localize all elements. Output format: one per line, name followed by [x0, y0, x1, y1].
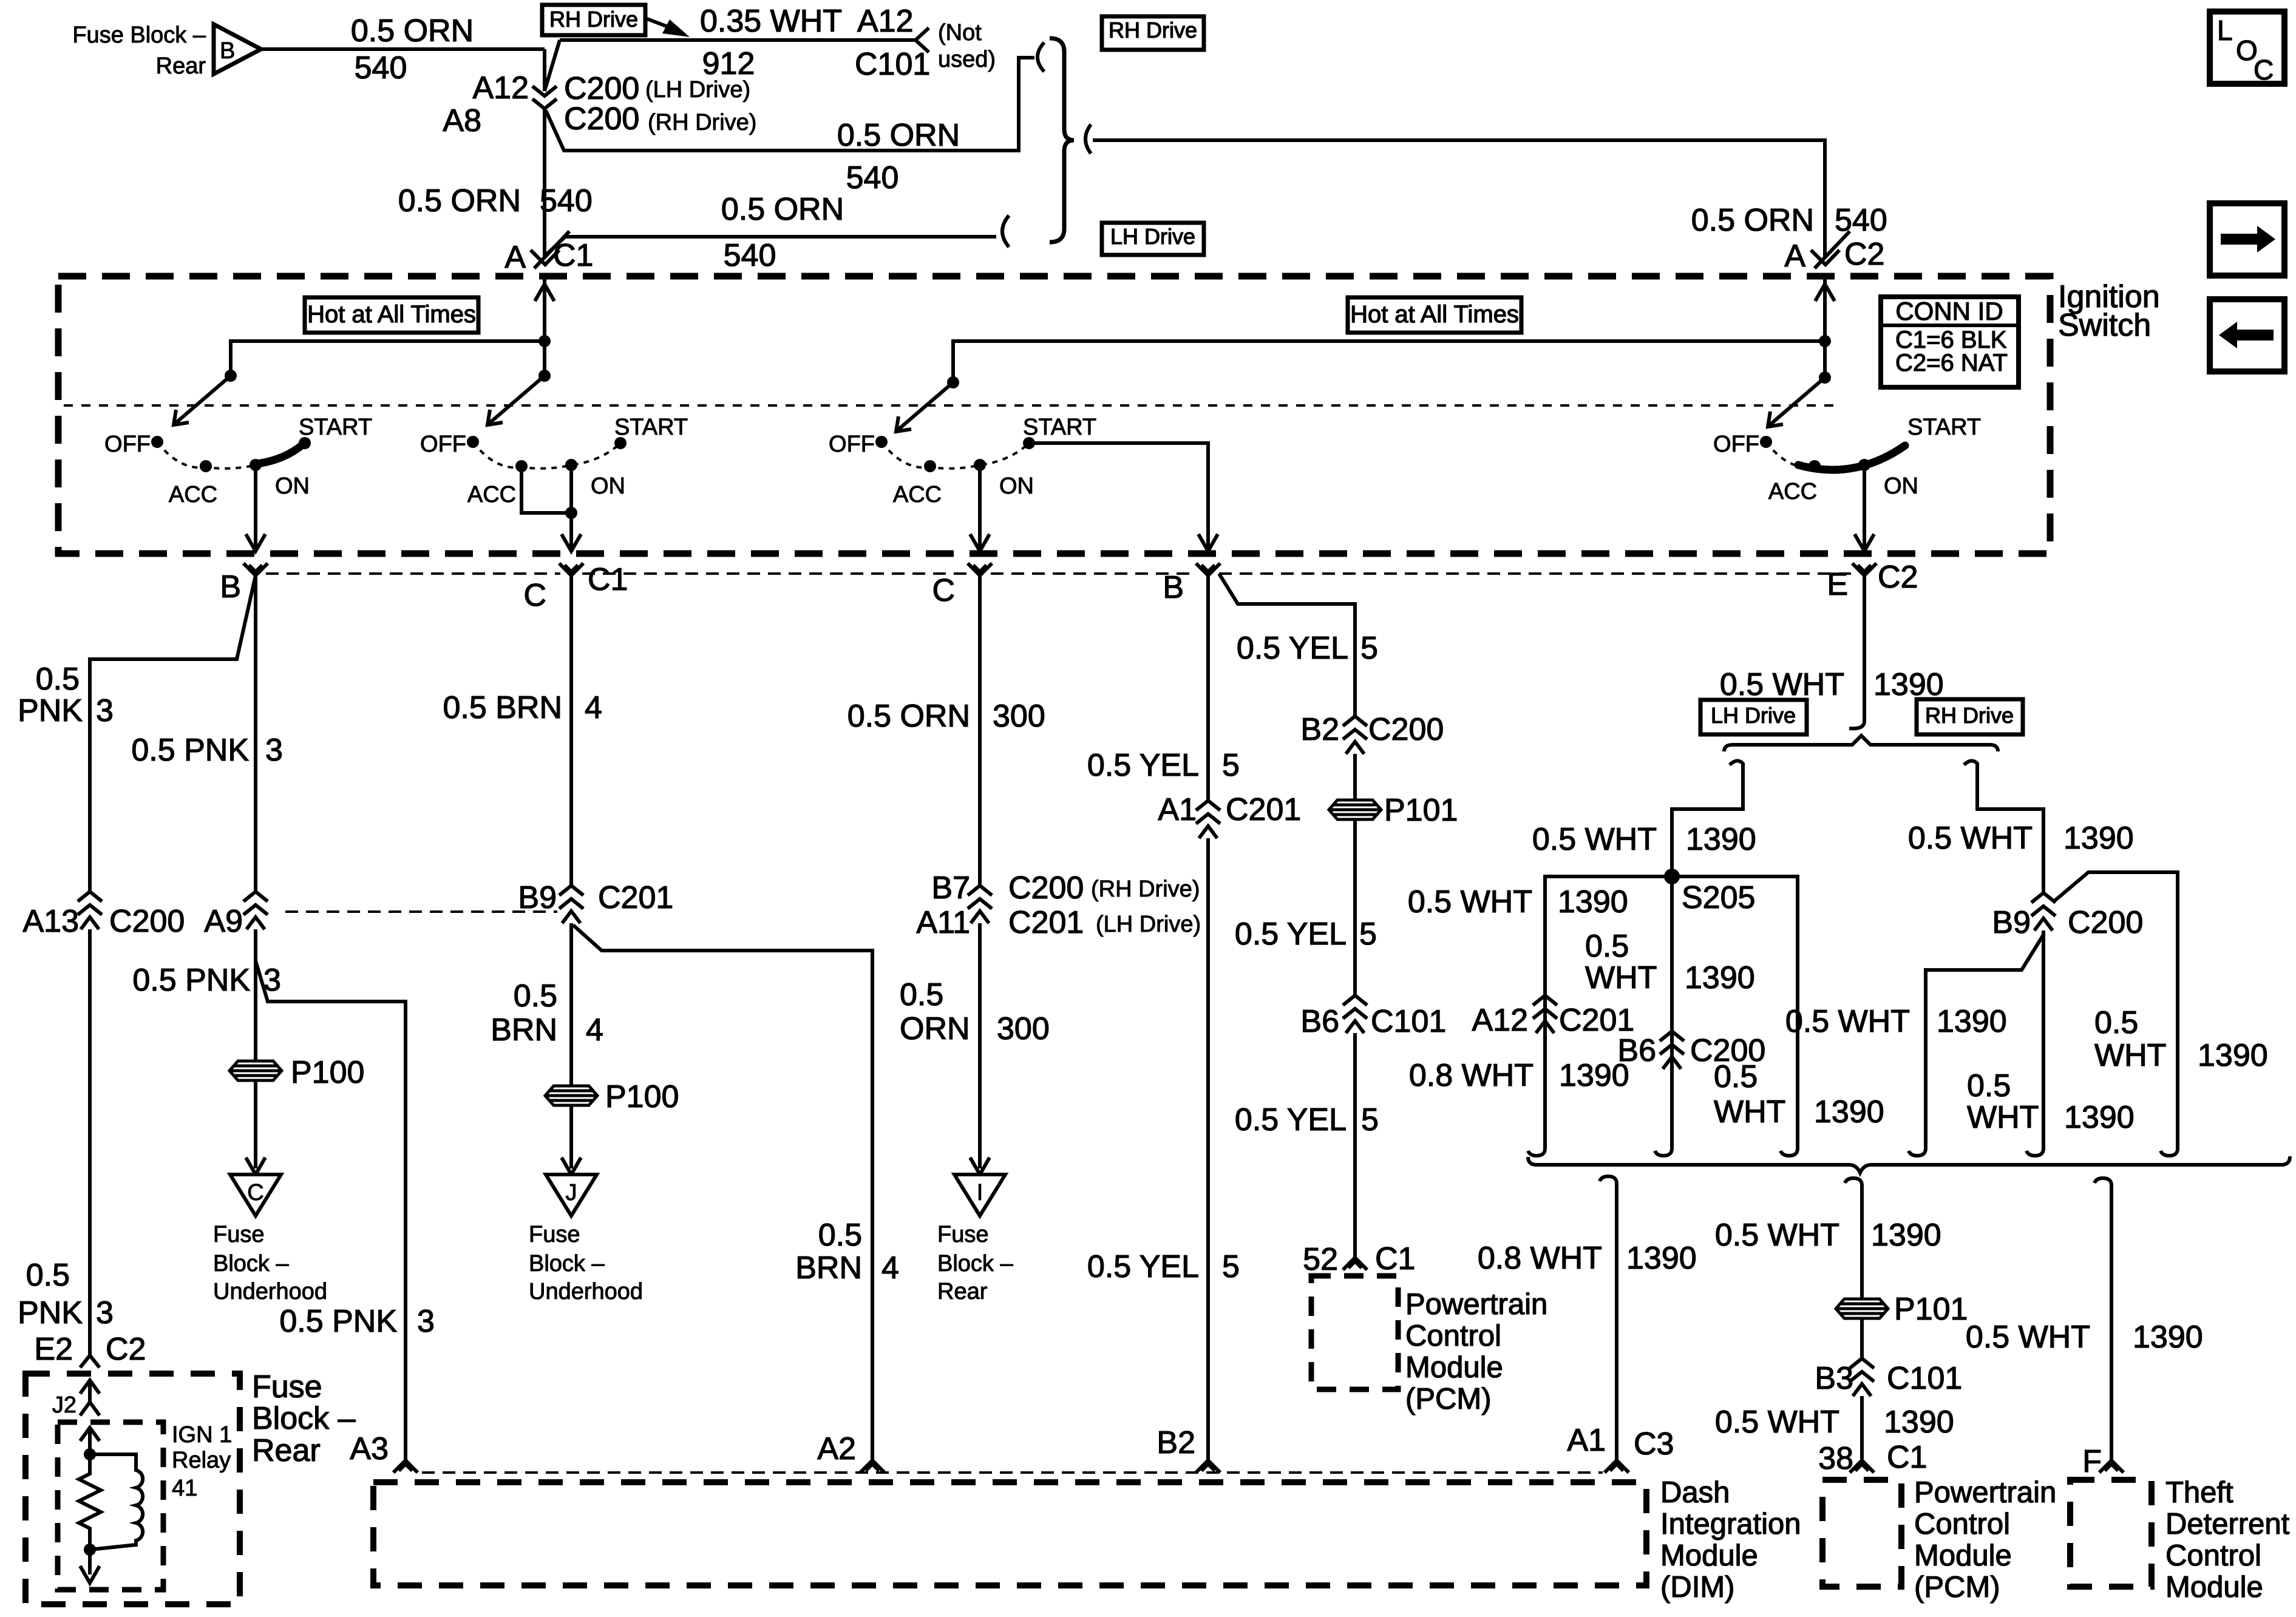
merge brace: [1050, 38, 1074, 242]
svg-text:C: C: [523, 578, 546, 613]
svg-text:B6: B6: [1617, 1033, 1656, 1068]
hook bottom right branch: [1781, 1140, 1798, 1156]
label 0.5 YEL 5 above 52: [1235, 1102, 1379, 1137]
cell3 labels: [829, 415, 1096, 507]
svg-text:C101: C101: [855, 47, 930, 82]
svg-text:B3: B3: [1815, 1361, 1853, 1396]
svg-text:C201: C201: [598, 880, 673, 915]
svg-text:0.35 WHT: 0.35 WHT: [700, 4, 842, 39]
connector B2 C200: [1300, 712, 1444, 754]
svg-text:C: C: [932, 573, 955, 608]
svg-text:0.5 ORN: 0.5 ORN: [837, 118, 960, 153]
relay input arrow: [80, 1428, 100, 1454]
svg-text:0.5 PNK: 0.5 PNK: [131, 733, 249, 768]
svg-text:Powertrain: Powertrain: [1405, 1288, 1547, 1321]
Theft Deterrent dashed box: [2070, 1480, 2152, 1587]
hook bottom left jog: [1909, 1140, 1926, 1156]
svg-text:5: 5: [1360, 631, 1378, 666]
hook below brace F: [2094, 1178, 2111, 1194]
svg-text:C: C: [247, 1180, 263, 1205]
label 0.5 ORN 300: [847, 699, 1045, 734]
cell3 output wire from ON: [970, 465, 990, 551]
svg-text:C200: C200: [1008, 870, 1084, 906]
fuse P101 lower: [1836, 1292, 1968, 1327]
svg-text:0.5 ORN: 0.5 ORN: [351, 13, 474, 49]
wire to A1 C3: [1615, 1192, 1618, 1460]
svg-text:540: 540: [1835, 203, 1887, 238]
distribution wire right: [947, 341, 1825, 388]
svg-text:Block –: Block –: [252, 1401, 356, 1436]
svg-text:Rear: Rear: [156, 53, 206, 79]
svg-text:0.5 YEL: 0.5 YEL: [1235, 917, 1347, 952]
svg-text:OFF: OFF: [829, 432, 875, 457]
wire 0.5 ORN 540 horizontal: [261, 13, 545, 86]
svg-text:Integration: Integration: [1660, 1508, 1801, 1541]
connector face dashed A9-B9: [285, 910, 557, 913]
svg-text:C1: C1: [588, 562, 628, 597]
connector 38 C1: [1818, 1440, 1927, 1476]
label 0.5 YEL 5 branch: [1237, 631, 1378, 666]
wire S205 middle branch: [1670, 876, 1674, 1140]
label Powertrain Control Module PCM small: [1405, 1288, 1547, 1415]
svg-text:J2: J2: [52, 1392, 76, 1418]
label Theft Deterrent Control Module: [2165, 1476, 2290, 1604]
connector B6 C200: [1617, 1031, 1765, 1069]
svg-text:0.5: 0.5: [1967, 1068, 2011, 1103]
connector B7 A11 C200 C201: [916, 870, 1201, 940]
svg-text:Block –: Block –: [213, 1251, 289, 1276]
connector C C1: [523, 562, 628, 613]
connector A1 C201: [1158, 792, 1301, 838]
svg-text:P101: P101: [1384, 793, 1458, 828]
cell4 dashed arc: [1766, 442, 1815, 467]
svg-text:C201: C201: [1008, 905, 1084, 940]
svg-text:ON: ON: [275, 473, 310, 499]
svg-text:LH Drive: LH Drive: [1110, 224, 1195, 249]
right arrow box: [2210, 203, 2284, 276]
svg-text:1390: 1390: [1937, 1004, 2007, 1039]
wire B9 up right jog: [2053, 872, 2178, 1140]
LH split hook and wire to S205: [1672, 761, 1743, 876]
cell1 output wire: [246, 465, 265, 551]
svg-text:Underhood: Underhood: [213, 1279, 327, 1304]
svg-text:S205: S205: [1682, 880, 1755, 915]
svg-text:WHT: WHT: [2094, 1038, 2166, 1073]
svg-text:Fuse: Fuse: [529, 1222, 580, 1247]
svg-text:A12: A12: [1472, 1003, 1528, 1038]
hook bottom far right: [2161, 1140, 2178, 1156]
wire A13 to E2: [88, 929, 92, 1355]
svg-text:0.5 WHT: 0.5 WHT: [1715, 1218, 1839, 1253]
svg-text:E2: E2: [34, 1332, 73, 1367]
wire 0.35 WHT 912: [560, 4, 914, 81]
label 0.5 PNK 3 A3: [279, 1304, 435, 1339]
cell4 output wire: [1855, 465, 1874, 551]
label Fuse Block Rear mid: [937, 1222, 1013, 1304]
connector C200 A12/A8 double chevron: [532, 86, 557, 109]
label 0.5 YEL 5 below P101: [1235, 917, 1377, 952]
fuse P100 left: [229, 1055, 364, 1090]
wire to triangle I: [970, 923, 990, 1175]
connector A3: [350, 1431, 418, 1473]
label 0.5 WHT 1390 left branch: [1408, 884, 1628, 920]
svg-text:1390: 1390: [1871, 1218, 1941, 1253]
label IGN 1 Relay 41: [172, 1422, 232, 1501]
mechanical link dashed line: [64, 404, 1839, 407]
svg-text:B9: B9: [1992, 905, 2031, 940]
svg-text:C: C: [2254, 54, 2274, 86]
svg-text:ACC: ACC: [1768, 479, 1817, 504]
cell1 contacts: [151, 436, 311, 472]
svg-text:1390: 1390: [2198, 1038, 2268, 1073]
svg-text:ORN: ORN: [900, 1011, 970, 1046]
svg-text:P100: P100: [605, 1079, 679, 1114]
svg-text:41: 41: [172, 1476, 197, 1501]
connector E C2: [1827, 560, 1918, 602]
connector A2: [817, 1431, 885, 1473]
label Ignition Switch: [2058, 279, 2160, 343]
svg-text:Rear: Rear: [937, 1279, 988, 1304]
svg-text:Theft: Theft: [2165, 1476, 2233, 1509]
svg-text:B2: B2: [1156, 1425, 1195, 1460]
svg-text:3: 3: [265, 733, 283, 768]
svg-text:ACC: ACC: [893, 482, 942, 507]
svg-text:0.5 YEL: 0.5 YEL: [1087, 1249, 1199, 1284]
svg-text:Block –: Block –: [937, 1251, 1013, 1276]
label 0.5 WHT 1390 far right: [2094, 1005, 2268, 1073]
svg-text:0.5: 0.5: [1714, 1059, 1758, 1094]
svg-text:C1: C1: [1375, 1241, 1415, 1276]
split brace: [1724, 736, 1998, 751]
wiper arrow cell3: [896, 382, 953, 432]
hook bottom B9 wire: [2026, 1140, 2043, 1156]
svg-text:Fuse: Fuse: [252, 1369, 322, 1405]
ignition switch dashed box: [58, 276, 2050, 554]
svg-text:ACC: ACC: [169, 482, 217, 507]
wire B9 left jog: [1926, 935, 2043, 1140]
wire E C2 down: [1849, 575, 1864, 728]
feed wire cells 1-2: [535, 276, 554, 382]
relay junction dots: [84, 1448, 96, 1556]
DIM dashed box: [373, 1482, 1646, 1585]
svg-text:(DIM): (DIM): [1660, 1571, 1734, 1604]
svg-text:0.5 YEL: 0.5 YEL: [1237, 631, 1348, 666]
triangle C Fuse Block Underhood: [230, 1175, 281, 1216]
svg-text:C2: C2: [1878, 560, 1918, 595]
connector A12 C201: [1472, 995, 1634, 1038]
wire B down: [1206, 575, 1210, 801]
svg-text:(PCM): (PCM): [1405, 1383, 1492, 1415]
wire B9 straight down: [2042, 931, 2045, 1140]
svg-text:0.5 WHT: 0.5 WHT: [1715, 1405, 1839, 1440]
svg-text:5: 5: [1361, 1102, 1379, 1137]
connector A C2: [1784, 231, 1884, 274]
connector F: [2082, 1444, 2124, 1479]
label 0.5 PNK 3 below A9: [132, 963, 281, 998]
connector C cell3: [932, 563, 992, 608]
svg-text:1390: 1390: [1686, 822, 1756, 857]
wire P100 to fuse block triangle: [246, 1080, 265, 1175]
svg-text:WHT: WHT: [1967, 1100, 2039, 1135]
svg-text:Switch: Switch: [2058, 308, 2151, 343]
svg-text:(RH Drive): (RH Drive): [648, 110, 756, 135]
svg-text:4: 4: [881, 1250, 899, 1286]
feed wire cells 3-4: [1815, 276, 1835, 384]
svg-text:0.5 YEL: 0.5 YEL: [1235, 1102, 1347, 1137]
svg-text:0.5 WHT: 0.5 WHT: [1966, 1320, 2090, 1355]
resistor: [79, 1454, 101, 1550]
svg-text:Control: Control: [2165, 1539, 2261, 1572]
svg-text:B6: B6: [1300, 1004, 1339, 1039]
svg-text:OFF: OFF: [104, 432, 151, 457]
RH Drive flag box top: [542, 5, 690, 37]
wire B9 branch to A2: [573, 925, 872, 1460]
cell2 ACC-ON bracket: [521, 465, 577, 519]
svg-text:0.5: 0.5: [1585, 929, 1629, 964]
RH split hook and wire to B9 C200: [1964, 761, 2043, 893]
label 0.5 BRN 4: [443, 690, 602, 725]
svg-text:C2: C2: [1844, 237, 1884, 272]
wire 0.5 ORN 540 LH drive: [545, 192, 996, 273]
svg-text:B7: B7: [931, 870, 970, 906]
triangle J Fuse Block Underhood: [546, 1175, 597, 1216]
svg-text:A13: A13: [22, 904, 79, 939]
svg-text:0.8 WHT: 0.8 WHT: [1478, 1241, 1602, 1276]
cell2 output wire: [562, 513, 581, 551]
svg-text:3: 3: [263, 963, 281, 998]
wire C down: [978, 575, 982, 887]
svg-text:0.5 PNK: 0.5 PNK: [132, 963, 250, 998]
wire A9 to P100: [254, 961, 257, 1061]
cell1 labels: [104, 415, 372, 507]
svg-text:A3: A3: [350, 1431, 389, 1466]
svg-text:5: 5: [1359, 917, 1377, 952]
svg-text:0.5: 0.5: [818, 1218, 862, 1253]
label Powertrain Control Module PCM: [1914, 1476, 2056, 1604]
wire 0.5 ORN 540 RH drive loop: [546, 58, 1034, 195]
wire down to connector C200: [543, 49, 546, 91]
svg-text:C101: C101: [1371, 1004, 1446, 1039]
svg-text:Fuse Block –: Fuse Block –: [72, 22, 206, 48]
svg-text:C200: C200: [109, 904, 185, 939]
cell3 contacts: [875, 436, 1035, 472]
svg-text:WHT: WHT: [1585, 960, 1657, 995]
connector B6 C101: [1300, 995, 1446, 1039]
svg-text:B9: B9: [518, 880, 557, 915]
svg-text:L: L: [2217, 15, 2233, 46]
wire B3 to 38: [1860, 1396, 1864, 1460]
wire C1 down: [569, 575, 573, 887]
svg-text:C3: C3: [1634, 1426, 1674, 1462]
connector face dashed DIM: [422, 1471, 1603, 1474]
svg-text:0.5 ORN: 0.5 ORN: [1691, 203, 1814, 238]
hook below brace P101: [1845, 1178, 1862, 1194]
svg-text:F: F: [2082, 1444, 2102, 1479]
svg-text:ON: ON: [1884, 473, 1918, 499]
svg-text:RH Drive: RH Drive: [1109, 18, 1197, 42]
gather brace bottom: [1528, 1156, 2290, 1173]
cell3 dashed arc: [881, 442, 1029, 469]
label 0.5 YEL 5: [1087, 748, 1240, 783]
svg-text:0.5: 0.5: [514, 978, 557, 1014]
break bracket RH: [1038, 42, 1044, 72]
wire S205 left branch: [1545, 876, 1672, 1140]
svg-text:A2: A2: [817, 1431, 856, 1466]
label 0.5 ORN 300 stacked: [900, 977, 1050, 1046]
cell1 bold arc ON-START: [257, 444, 303, 464]
svg-text:C201: C201: [1226, 792, 1301, 827]
cell2 contacts: [467, 436, 627, 472]
merge break: [1085, 124, 1091, 154]
wire to P101: [1860, 1194, 1864, 1358]
svg-text:(Not: (Not: [938, 20, 982, 46]
label 0.5 WHT 1390 B9 down: [1967, 1068, 2135, 1135]
PCM small dashed box: [1311, 1276, 1398, 1389]
svg-text:0.5: 0.5: [900, 977, 943, 1012]
svg-text:0.5: 0.5: [2094, 1005, 2138, 1040]
svg-text:Deterrent: Deterrent: [2165, 1508, 2290, 1541]
cell3 START wire: [1029, 443, 1218, 551]
svg-text:540: 540: [724, 238, 776, 273]
svg-text:300: 300: [997, 1011, 1050, 1046]
svg-text:Powertrain: Powertrain: [1914, 1476, 2056, 1509]
wire to triangle J: [562, 1105, 581, 1175]
svg-text:1390: 1390: [1884, 1405, 1954, 1440]
fuse P100 mid: [545, 1079, 679, 1114]
Hot at All Times box 2: [1348, 297, 1521, 333]
svg-text:Fuse: Fuse: [937, 1222, 988, 1247]
svg-text:A: A: [504, 240, 526, 275]
connector B cell1: [220, 563, 268, 605]
svg-text:Module: Module: [1914, 1539, 2012, 1572]
svg-text:LH Drive: LH Drive: [1711, 703, 1796, 728]
svg-text:1390: 1390: [1685, 960, 1755, 995]
svg-text:J: J: [566, 1180, 577, 1205]
svg-text:Hot at All Times: Hot at All Times: [307, 301, 476, 328]
connector A1 C3: [1567, 1423, 1674, 1473]
svg-text:A1: A1: [1158, 792, 1197, 827]
svg-text:1390: 1390: [2133, 1320, 2203, 1355]
wire 0.5 ORN 540 to A C2: [1093, 140, 1887, 258]
connector half chevron A12 C101 (Not used): [855, 4, 996, 82]
label 0.5 WHT 1390 right branch: [1714, 1059, 1884, 1130]
svg-text:C2=6 NAT: C2=6 NAT: [1895, 350, 2008, 376]
svg-text:Module: Module: [1660, 1539, 1758, 1572]
cell4 bold arc ACC-START: [1798, 446, 1905, 470]
wire B straight down: [254, 575, 257, 892]
label 0.5 BRN 4 stacked: [491, 978, 603, 1048]
wire diagonal to 0.35 WHT: [545, 40, 560, 91]
label 0.5 WHT 1390 middle: [1585, 929, 1755, 995]
label 0.5 WHT 1390 RH: [1908, 821, 2134, 856]
svg-text:Block –: Block –: [529, 1251, 605, 1276]
cell4 labels: [1713, 415, 1981, 504]
label 0.5 WHT 1390 F: [1966, 1320, 2203, 1355]
wire A9 branch to A3: [256, 929, 406, 1460]
svg-text:CONN ID: CONN ID: [1895, 297, 2003, 325]
PCM dashed box: [1822, 1480, 1901, 1587]
connector B cell3 start: [1163, 563, 1220, 605]
svg-text:START: START: [614, 415, 688, 440]
label Fuse Block Rear: [72, 22, 206, 79]
svg-text:4: 4: [585, 690, 602, 725]
LH Drive flag box: [1102, 223, 1204, 255]
svg-text:C2: C2: [106, 1332, 146, 1367]
svg-text:52: 52: [1303, 1242, 1338, 1277]
wire B6 to PCM 52: [1353, 1033, 1357, 1258]
break bracket LH: [1002, 215, 1009, 247]
svg-text:A1: A1: [1567, 1423, 1606, 1458]
svg-text:PNK: PNK: [18, 693, 83, 728]
wire B jog left: [90, 575, 256, 892]
svg-text:START: START: [1023, 415, 1096, 440]
fuse block rear dashed box: [25, 1374, 240, 1604]
label Dash Integration Module DIM: [1660, 1476, 1801, 1604]
hook below brace A1: [1600, 1176, 1617, 1192]
svg-text:4: 4: [586, 1012, 603, 1048]
svg-text:C200: C200: [2068, 905, 2143, 940]
svg-text:START: START: [299, 415, 372, 440]
svg-text:1390: 1390: [1814, 1094, 1884, 1130]
wire S205 right branch: [1672, 876, 1798, 1140]
label 0.5 PNK 3 left: [18, 662, 114, 728]
svg-text:PNK: PNK: [18, 1295, 83, 1331]
triangle I Fuse Block Rear: [954, 1175, 1005, 1216]
svg-text:IGN 1: IGN 1: [172, 1422, 232, 1448]
svg-text:Relay: Relay: [172, 1448, 231, 1473]
svg-text:Dash: Dash: [1660, 1476, 1730, 1509]
svg-text:0.5 WHT: 0.5 WHT: [1408, 884, 1532, 920]
svg-text:0.5: 0.5: [26, 1258, 70, 1293]
label Fuse Block Underhood mid: [529, 1222, 643, 1304]
svg-text:A12: A12: [472, 70, 529, 106]
svg-text:3: 3: [96, 1295, 114, 1331]
svg-text:0.5 ORN: 0.5 ORN: [847, 699, 970, 734]
svg-text:Module: Module: [1405, 1351, 1503, 1384]
connector 52 C1: [1303, 1241, 1415, 1277]
label 0.5 YEL 5 lower: [1087, 1249, 1240, 1284]
svg-text:I: I: [977, 1180, 983, 1205]
svg-text:A9: A9: [204, 904, 243, 939]
svg-text:A11: A11: [916, 905, 970, 940]
svg-text:0.8 WHT: 0.8 WHT: [1409, 1058, 1533, 1093]
cell2 labels: [420, 415, 688, 507]
RH Drive flag box lower: [1917, 699, 2023, 734]
wire to P101: [1353, 754, 1357, 995]
svg-text:1390: 1390: [1626, 1241, 1697, 1276]
svg-text:BRN: BRN: [795, 1250, 862, 1286]
svg-text:C1: C1: [1887, 1440, 1927, 1475]
svg-text:OFF: OFF: [1713, 432, 1759, 457]
wiper arrow cell1: [174, 376, 231, 425]
CONN ID table: [1881, 297, 2019, 387]
label 0.5 WHT 1390 below B3: [1715, 1405, 1954, 1440]
svg-text:C200: C200: [1368, 712, 1444, 747]
connector B9 C200 RH: [1992, 893, 2143, 940]
svg-text:(RH Drive): (RH Drive): [1091, 876, 1200, 902]
svg-text:1390: 1390: [1558, 884, 1628, 920]
splice S205: [1664, 869, 1755, 915]
svg-text:P101: P101: [1894, 1292, 1968, 1327]
svg-text:used): used): [938, 47, 996, 72]
wire B branch right: [1219, 574, 1355, 717]
label 0.5 WHT 1390 left jog: [1785, 1004, 2007, 1039]
svg-text:Control: Control: [1405, 1320, 1501, 1352]
connector J2: [52, 1380, 100, 1418]
connector A C1: [504, 231, 593, 275]
svg-text:E: E: [1827, 567, 1848, 602]
svg-text:BRN: BRN: [491, 1012, 557, 1048]
